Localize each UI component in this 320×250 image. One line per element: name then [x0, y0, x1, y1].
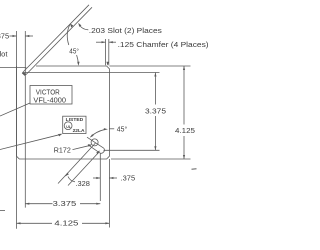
svg-text:3.375: 3.375: [145, 108, 166, 115]
svg-text:3.375: 3.375: [53, 201, 77, 208]
slot lower line: [89, 145, 100, 152]
hole: [91, 139, 98, 146]
svg-text:LISTED: LISTED: [66, 117, 84, 122]
mid 45 arc: [91, 130, 104, 137]
svg-text:UL: UL: [66, 125, 72, 129]
arm junction blob: [22, 72, 27, 76]
svg-text:45°: 45°: [69, 47, 79, 55]
top edge left stub: [0, 67, 26, 69]
svg-text:R172: R172: [54, 145, 71, 154]
45 arrow down on edge: [77, 62, 79, 66]
VICTOR box: [30, 86, 72, 105]
dim .328 second diagonal: [68, 152, 100, 186]
svg-text:.125 Chamfer (4 Places): .125 Chamfer (4 Places): [118, 42, 209, 49]
45 arc lower segment: [77, 55, 79, 64]
svg-text:375: 375: [0, 32, 9, 41]
dim .328 diagonal: [58, 143, 96, 184]
corner down arrow: [106, 62, 108, 66]
chamfer ext lines: [96, 39, 116, 65]
diagonal arm lower line: [26, 7, 92, 74]
svg-text:.375: .375: [121, 176, 136, 183]
vertical arm line B: [24, 31, 26, 208]
vertical arm line A: [16, 31, 18, 229]
svg-text:.203 Slot (2) Places: .203 Slot (2) Places: [89, 28, 163, 35]
svg-text:VFL-4000: VFL-4000: [33, 97, 66, 104]
top edge extension right: [109, 65, 190, 67]
mid 45 arrow right: [104, 128, 108, 130]
svg-text:45°: 45°: [117, 125, 128, 133]
VICTOR leader: [0, 103, 30, 116]
dash before 45: [109, 128, 114, 130]
plate outline: [17, 66, 110, 159]
dim 3.375 right vertical: [104, 73, 160, 151]
svg-text:.328: .328: [75, 181, 90, 188]
LISTED box: [63, 116, 86, 133]
svg-text:4.125: 4.125: [54, 221, 78, 228]
leader .203: [80, 25, 89, 30]
slot end cap: [100, 148, 105, 153]
svg-text:Slot: Slot: [0, 50, 8, 59]
svg-text:4.125: 4.125: [175, 128, 195, 135]
45 arrow on upper diagonal: [70, 23, 73, 27]
svg-text:22LA: 22LA: [73, 128, 85, 134]
small speck: [192, 168, 197, 171]
dim 3.375 bottom: [25, 203, 100, 205]
rail front line: [24, 72, 160, 74]
left small tick: [0, 210, 5, 212]
dim 4.125 right vertical: [111, 66, 191, 159]
diagonal arm upper line: [23, 5, 89, 72]
dim .375 bottom right: [93, 153, 117, 227]
LISTED leader: [0, 134, 61, 149]
45 arc upper segment: [67, 25, 70, 46]
slot upper line: [87, 137, 104, 148]
dim 4.125 bottom: [17, 222, 110, 224]
svg-text:VICTOR: VICTOR: [36, 89, 60, 96]
dim .375 top left: [10, 35, 34, 37]
